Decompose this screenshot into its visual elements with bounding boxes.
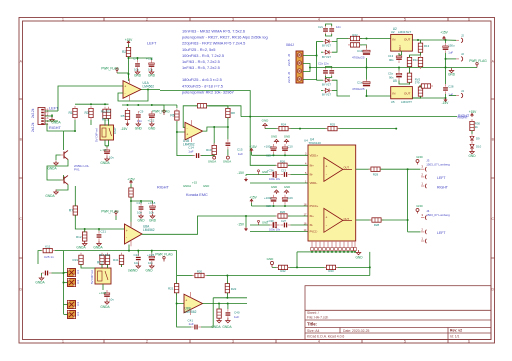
junction <box>147 89 149 91</box>
wire C22 stub <box>137 251 139 254</box>
wire c13 top <box>399 53 402 55</box>
wire R11 right <box>55 250 64 252</box>
svg-text:+15V: +15V <box>249 196 257 200</box>
relay RL2 coil detail <box>98 271 103 281</box>
jack pin <box>421 181 426 188</box>
wire J4 p2 <box>408 231 421 233</box>
svg-text:R26: R26 <box>280 160 286 164</box>
wire U8A out to TPA B <box>142 216 276 234</box>
svg-text:GND: GND <box>148 126 156 130</box>
wire C26 stub <box>151 251 153 254</box>
svg-text:3: 3 <box>232 18 234 22</box>
op-amp U8A <box>125 222 155 246</box>
wire R4 to rail <box>130 197 132 201</box>
power flag small A <box>258 170 260 175</box>
resistor R10 <box>212 143 216 157</box>
trimmer RV3 <box>67 300 75 308</box>
svg-text:180uF/25 - d=6.3 r=2.5: 180uF/25 - d=6.3 r=2.5 <box>182 77 222 82</box>
svg-text:+: + <box>124 85 126 89</box>
resistor R41 <box>119 253 123 267</box>
wire TPA A internal out <box>343 168 352 170</box>
svg-text:VDD1+: VDD1+ <box>310 153 319 157</box>
ground GNDA C15 <box>223 156 231 163</box>
wire U1A feedback <box>118 90 148 102</box>
svg-text:C9: C9 <box>140 109 144 113</box>
capacitor C13b <box>396 53 402 63</box>
junction <box>226 275 228 277</box>
svg-text:GND: GND <box>267 257 275 261</box>
capacitor C40 <box>226 309 231 319</box>
resistor RV2r <box>418 85 422 99</box>
wire pwrflag psu <box>453 67 477 69</box>
svg-text:2x2.2k: 2x2.2k <box>31 122 35 132</box>
wire R21 top <box>176 276 178 284</box>
wire pwrflag <box>117 72 129 74</box>
capacitor C18 <box>150 203 156 213</box>
svg-text:100u 10v: 100u 10v <box>269 177 281 181</box>
diode D10 <box>470 142 474 151</box>
svg-text:GND: GND <box>284 185 290 189</box>
wire relay2 down <box>102 284 104 290</box>
wire R9 to U1B- <box>183 106 197 128</box>
IC U4 <box>308 137 356 241</box>
svg-text:D9: D9 <box>476 136 480 140</box>
wire fb to bus <box>64 250 130 252</box>
svg-text:3.3: 3.3 <box>76 280 80 284</box>
svg-text:GNDA: GNDA <box>222 325 232 329</box>
wire TPA B internal out <box>343 219 352 221</box>
wire adj down <box>401 51 403 55</box>
svg-text:R12: R12 <box>76 235 82 239</box>
svg-text:U2: U2 <box>391 30 395 34</box>
wire C25 gnd <box>41 273 43 276</box>
wire center gnd rail <box>310 67 453 69</box>
svg-text:R24: R24 <box>281 123 287 127</box>
resistor RV2 <box>419 84 433 88</box>
trimmer RV2 <box>67 278 75 286</box>
transistor Q1 <box>61 151 69 160</box>
svg-text:R1: R1 <box>68 111 72 115</box>
svg-text:BYV27: BYV27 <box>322 93 331 97</box>
power +15V <box>127 177 135 184</box>
junction <box>398 67 400 69</box>
wire pot1 <box>64 272 68 274</box>
op-amp U1B <box>183 120 203 146</box>
wire D2 in <box>321 51 323 53</box>
frame tick <box>361 340 363 344</box>
capacitor C1b <box>363 79 370 86</box>
wire to U2 IN <box>360 38 391 40</box>
svg-text:3.3: 3.3 <box>76 302 80 306</box>
wire snub top <box>326 24 332 26</box>
svg-text:OUT: OUT <box>404 37 411 41</box>
capacitor C29 <box>282 195 288 205</box>
svg-text:C1x: C1x <box>357 81 363 85</box>
junction <box>137 104 139 106</box>
svg-text:10n: 10n <box>137 211 142 215</box>
svg-text:OUT: OUT <box>404 92 411 96</box>
capacitor C10 <box>271 144 277 154</box>
svg-text:PV1: PV1 <box>74 167 80 171</box>
wire C1b to U5 <box>367 90 391 97</box>
svg-text:Title:: Title: <box>307 322 317 327</box>
power PWR_FLAG <box>152 109 170 115</box>
relay RL1 coil detail <box>102 128 106 137</box>
wire R9 to R8 <box>207 105 228 107</box>
resistor R8 <box>226 106 230 120</box>
svg-text:J2: J2 <box>461 34 464 38</box>
wire cap rail <box>129 58 152 60</box>
ground GNDA <box>35 276 45 285</box>
capacitor C25 <box>42 271 52 276</box>
IC RL2 <box>95 260 111 284</box>
wire R23 top <box>218 304 220 310</box>
trimmer RV4 <box>67 310 75 318</box>
wire mute rail top <box>75 103 109 105</box>
resistor R14 <box>407 55 411 69</box>
ground up B2 <box>284 185 290 194</box>
svg-text:+100u: +100u <box>264 145 272 149</box>
svg-text:R7: R7 <box>69 209 73 213</box>
svg-text:10nF/63 - MKS2 WIMA R=5, 7.5x2: 10nF/63 - MKS2 WIMA R=5, 7.5x2.6 <box>182 29 245 34</box>
svg-text:TPA6120: TPA6120 <box>309 141 322 145</box>
wire trim bus <box>63 251 65 314</box>
junction <box>273 154 275 156</box>
svg-text:R22: R22 <box>352 33 358 37</box>
wire D4 out <box>332 90 337 92</box>
resistor R4 <box>129 186 133 200</box>
wire U8B out <box>203 303 248 305</box>
junction <box>366 38 368 40</box>
jack pin <box>421 172 426 179</box>
junction <box>316 55 318 57</box>
wire P3 p4 <box>303 79 317 82</box>
wire D3 out <box>332 80 350 96</box>
wire lower adj <box>399 81 410 85</box>
svg-text:C21: C21 <box>101 230 107 234</box>
wire J output bus <box>407 169 409 232</box>
wire R10 bottom <box>213 155 215 156</box>
svg-text:J4: J4 <box>461 89 464 93</box>
junction <box>273 205 275 207</box>
ground GNDA <box>222 318 232 329</box>
svg-text:ADJ: ADJ <box>398 45 402 51</box>
junction <box>249 116 251 118</box>
frame tick <box>447 340 449 344</box>
wire R9 to railA <box>209 106 241 117</box>
wire C25 to pot <box>52 272 64 274</box>
wire led <box>471 131 473 134</box>
frame tick <box>275 18 277 22</box>
resistor R9 <box>195 104 209 108</box>
svg-text:5V: 5V <box>128 269 132 273</box>
wire -15v stub A <box>245 175 247 177</box>
wire R17 to relay <box>108 118 110 125</box>
resistor R43 <box>324 265 338 269</box>
op-amp U1A <box>123 79 154 101</box>
svg-text:R28: R28 <box>374 223 380 227</box>
wire +15V stub A <box>251 152 253 155</box>
junction <box>74 130 76 132</box>
resistor R42 <box>276 265 290 269</box>
wire U1A out <box>141 89 160 91</box>
op-amp TPA A half <box>324 158 343 182</box>
wire R3 down <box>90 120 92 125</box>
svg-text:BYV27: BYV27 <box>322 82 331 86</box>
svg-text:GNDA: GNDA <box>45 194 55 198</box>
jack pin <box>421 213 426 220</box>
svg-text:KiCad E.D.A. kicad 4.0.6: KiCad E.D.A. kicad 4.0.6 <box>307 335 344 339</box>
wire VDD1+ rail <box>252 154 309 156</box>
svg-text:GND: GND <box>416 204 422 208</box>
wire j4 <box>449 95 456 97</box>
svg-text:GND: GND <box>284 135 290 139</box>
ground GND <box>148 70 156 78</box>
resistor R5 <box>125 108 129 122</box>
resistor R2 <box>122 45 131 59</box>
wire IN- B right <box>291 224 309 226</box>
svg-text:LM4562: LM4562 <box>143 84 155 88</box>
svg-text:C27: C27 <box>281 219 286 223</box>
capacitor C27 <box>281 223 291 228</box>
power PWR_FLAG <box>101 209 119 216</box>
ground GND <box>134 70 142 78</box>
wire rail C left <box>177 275 193 277</box>
ground GNDA <box>47 161 58 171</box>
junction <box>63 272 65 274</box>
svg-text:Sheet: /: Sheet: / <box>307 311 319 315</box>
power -15V <box>121 122 129 131</box>
wire U8B upper <box>213 297 247 299</box>
svg-text:5: 5 <box>404 18 406 22</box>
wire rv2 <box>419 86 421 87</box>
diode D2 <box>323 50 332 54</box>
svg-text:R29: R29 <box>373 172 379 176</box>
svg-text:PWR_FLAG: PWR_FLAG <box>469 59 487 63</box>
power -15V <box>237 223 247 231</box>
ground GND rail <box>262 119 270 129</box>
svg-text:+C12: +C12 <box>148 119 155 123</box>
resistor R1 <box>68 106 77 120</box>
svg-text:GND: GND <box>145 269 153 273</box>
capacitor C11 <box>149 60 155 70</box>
wire D1 out <box>332 39 350 42</box>
wire bus drop right <box>369 252 371 276</box>
capacitor C28 <box>443 84 448 94</box>
junction <box>417 39 419 41</box>
wire bus drop left <box>296 252 298 268</box>
svg-text:10v: 10v <box>109 298 114 302</box>
svg-text:2x15: 2x15 <box>287 59 291 66</box>
resistor R17 <box>106 107 110 121</box>
capacitor C21 <box>97 231 102 241</box>
junction <box>151 250 153 252</box>
capacitor C19 <box>363 45 370 55</box>
svg-text:10u: 10u <box>148 67 153 71</box>
svg-text:10u: 10u <box>134 67 139 71</box>
svg-text:U5: U5 <box>393 79 397 83</box>
frame tick <box>19 177 23 179</box>
svg-text:4700u/25: 4700u/25 <box>352 87 365 91</box>
svg-text:R1x: R1x <box>413 58 419 62</box>
svg-text:R17 R18: R17 R18 <box>99 253 110 257</box>
resistor R7 <box>69 204 78 218</box>
svg-text:-: - <box>326 173 327 177</box>
resistor R15 <box>103 107 107 121</box>
wire PVCC+ rail <box>252 205 309 207</box>
junction <box>445 39 447 41</box>
wire U8A vcc rail <box>131 201 153 203</box>
wire P3 p3 <box>303 68 310 72</box>
diode D1 <box>323 39 332 43</box>
frame tick <box>103 340 105 344</box>
wire C40 top <box>227 304 229 310</box>
svg-text:90s: 90s <box>389 58 394 62</box>
ground GND J4 <box>416 204 423 214</box>
resistor R17b <box>105 253 109 267</box>
wire snub2 top <box>326 67 332 68</box>
jumper J1 <box>456 52 464 61</box>
junction <box>366 67 368 69</box>
resistor R25 <box>326 126 340 130</box>
capacitor C41 <box>191 325 201 330</box>
svg-text:+15V: +15V <box>127 177 135 181</box>
svg-text:+: + <box>325 215 327 219</box>
svg-text:3?9: 3?9 <box>415 81 420 85</box>
svg-text:+ C8: + C8 <box>100 148 107 152</box>
junction <box>284 205 286 207</box>
wire C15 top <box>227 127 229 139</box>
power flag small B <box>258 220 260 225</box>
ground GND <box>148 122 156 131</box>
wire Q2 down <box>56 185 68 191</box>
svg-text:BYV27: BYV27 <box>322 43 331 47</box>
svg-text:J2: J2 <box>461 52 464 56</box>
svg-text:+15V: +15V <box>469 110 477 114</box>
svg-text:C40: C40 <box>234 310 240 314</box>
capacitor C2b <box>323 67 328 77</box>
svg-text:084J: 084J <box>286 43 294 47</box>
wire snub2 bot <box>326 76 332 78</box>
svg-text:GNDA: GNDA <box>100 305 110 309</box>
wire U8A fb to railC <box>129 251 177 276</box>
svg-text:2: 2 <box>146 18 148 22</box>
svg-text:OUT: OUT <box>344 165 350 169</box>
svg-text:-15V: -15V <box>237 223 245 227</box>
wire -15 rail <box>412 94 445 98</box>
wire r41 down <box>121 264 123 267</box>
op-amp U8B <box>184 292 203 315</box>
svg-text:LEFT: LEFT <box>437 231 446 235</box>
frame tick <box>361 18 363 22</box>
capacitor C30 <box>270 222 280 228</box>
svg-text:VDD1-: VDD1- <box>310 181 318 185</box>
resistor R19 <box>79 253 83 267</box>
svg-text:1uF: 1uF <box>234 315 239 319</box>
resistor R21 <box>174 281 178 295</box>
ground GND <box>355 250 363 259</box>
wire R6 to U1B+ <box>177 121 185 132</box>
svg-text:C7: C7 <box>133 57 137 61</box>
capacitor C8 <box>104 147 110 157</box>
capacitor C2c <box>329 67 334 77</box>
wire -15v stub <box>245 216 247 227</box>
svg-text:+15V: +15V <box>249 145 257 149</box>
ground GNDA <box>76 241 87 250</box>
ground GND J3 <box>416 155 423 165</box>
svg-text:R26: R26 <box>280 210 286 214</box>
wire to mute Q1 <box>45 124 64 150</box>
capacitor C14 <box>193 153 203 158</box>
svg-text:1uF: 1uF <box>238 152 243 156</box>
ground up B1 <box>271 185 279 194</box>
ground GND <box>145 264 154 273</box>
wire C19 gnd <box>366 58 368 68</box>
wire to J3 <box>381 168 421 170</box>
wire c13b <box>398 68 400 71</box>
svg-text:GNDA: GNDA <box>47 167 57 171</box>
svg-text:3: 3 <box>232 340 234 344</box>
junction <box>309 67 311 69</box>
junction <box>128 57 130 59</box>
svg-text:+: + <box>185 299 187 303</box>
svg-text:R10: R10 <box>206 148 212 152</box>
wire to C8 <box>106 146 108 148</box>
svg-text:C25 1n: C25 1n <box>44 255 54 259</box>
wire R15 to relay <box>104 118 106 125</box>
svg-text:-15V: -15V <box>121 127 129 131</box>
junction <box>407 219 409 221</box>
connector P1 <box>38 108 49 126</box>
wire u5 out net <box>412 96 420 98</box>
junction <box>151 104 153 106</box>
frame tick <box>19 257 23 259</box>
jumper J2 <box>456 34 464 43</box>
svg-text:GND: GND <box>148 74 156 78</box>
junction <box>63 282 65 284</box>
svg-text:4: 4 <box>318 340 320 344</box>
wire R10 top <box>213 127 215 145</box>
wire pot4 <box>64 314 68 316</box>
frame tick <box>275 340 277 344</box>
svg-text:100u 10v: 100u 10v <box>269 227 281 231</box>
svg-text:R21: R21 <box>168 287 174 291</box>
resistor R22 <box>225 281 229 295</box>
ground GND <box>149 214 157 223</box>
junction <box>137 250 139 252</box>
svg-text:2: 2 <box>146 340 148 344</box>
junction <box>366 95 368 97</box>
junction <box>407 168 409 170</box>
ground GNDA R10 <box>208 156 216 163</box>
svg-text:GNDA: GNDA <box>93 246 103 250</box>
junction <box>227 303 229 305</box>
ground GND left <box>267 257 275 268</box>
svg-text:R13: R13 <box>424 44 430 48</box>
diode D4 <box>323 89 332 93</box>
wire U8B fb1 <box>177 304 191 328</box>
svg-text:GNDA: GNDA <box>183 184 191 188</box>
junction <box>140 200 142 202</box>
wire +15V to R2 <box>128 45 130 48</box>
wire pwrflag2 stub <box>115 216 117 220</box>
junction <box>299 128 301 130</box>
capacitor C24 <box>329 25 334 35</box>
connector P3 <box>296 51 303 83</box>
jack pin <box>421 165 426 172</box>
wire D2 out <box>332 41 337 52</box>
capacitor C38 <box>104 290 110 300</box>
